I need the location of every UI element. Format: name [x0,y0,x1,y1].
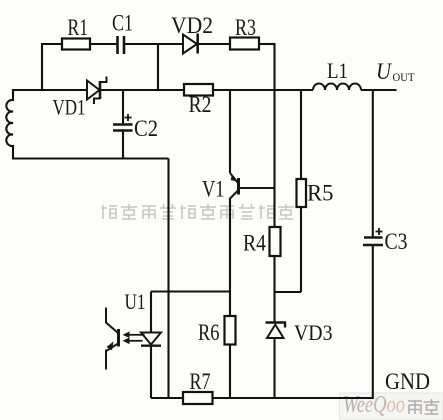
svg-text:R2: R2 [189,92,212,117]
wire R3 corner down through main rail to V1 base and R4 [273,43,275,227]
wire R1 to C1 [90,43,117,45]
schottky diode VD1 [87,77,107,105]
wire vertical common down to bottom rail [167,159,169,399]
wire VD3 anode to ground rail [273,339,275,399]
svg-text:C3: C3 [385,229,408,254]
wire R4 bottom lead down to VD3 [273,256,275,322]
wire top rail left lead [42,43,62,45]
svg-text:V1: V1 [202,177,225,202]
diode VD2 [183,34,198,54]
wire ground rail left of R7 [151,397,183,399]
optocoupler U1 phototransistor [106,308,119,370]
wire R6 bottom to ground rail [229,345,231,399]
svg-text:U1: U1 [125,289,146,314]
svg-text:R7: R7 [190,369,211,394]
wire C3 bottom lead [372,246,374,399]
resistor R1 [62,39,90,50]
svg-text:R1: R1 [68,15,89,40]
wire R3 to corner [259,43,275,45]
wire R5 bottom lead [300,207,302,292]
wire V1 collector down / R6 branch [229,198,231,316]
svg-text:C2: C2 [134,116,158,141]
svg-text:VD3: VD3 [294,320,333,345]
wire left vertical from R1 down to coil rail [41,43,43,90]
svg-text:R4: R4 [243,231,266,256]
svg-text:C1: C1 [112,11,133,36]
wire V1 emitter lead from rail [229,89,231,173]
polarized capacitor C2 [113,114,133,131]
wire U1 LED bottom lead [150,346,152,398]
watermark box (bottom right) [340,393,443,420]
resistor R2 [184,84,213,96]
wire junction vertical C1/VD2 down to main rail [157,44,159,90]
resistor R5 [297,179,307,207]
svg-text:GND: GND [385,369,430,394]
wire U1 LED anode horizontal to V1 collector line [151,290,230,292]
polarized capacitor C3 [363,228,383,245]
watermark text 维库 (mock glyphs) [408,399,440,414]
svg-text:R3: R3 [235,15,256,40]
wire R5 top lead [300,89,302,179]
wire ground rail right of R7 [213,397,374,399]
resistor R7 [183,392,213,404]
zener diode VD3 [266,323,286,339]
wire C2 top lead [122,90,124,124]
capacitor C1 [118,36,125,54]
wire main rail: VD1 to R2 [101,89,184,91]
transistor V1 (PNP) [230,173,275,199]
watermark middle: 杭州将睿科技有限公司 (mock glyphs) [101,204,294,219]
wire secondary bottom line [12,157,169,159]
wire C3 top lead [372,90,374,237]
svg-text:U: U [376,59,392,84]
wire main rail: coil to VD1 [12,89,87,91]
resistor R6 [225,316,236,345]
svg-text:VD2: VD2 [171,13,213,38]
resistor R3 [230,38,259,50]
svg-text:VD1: VD1 [53,95,86,120]
svg-text:R6: R6 [198,320,220,345]
inductor winding (left transformer coil) [6,89,13,159]
resistor R4 [270,227,281,256]
optocoupler U1 LED [141,333,161,346]
wire main rail: R2 to L1 [213,89,313,91]
optocoupler light arrows [123,332,145,345]
wire U1 LED top lead [150,292,152,333]
wire output lead after L1 [361,89,397,91]
wire VD2 to R3 [199,43,231,45]
inductor L1 [313,84,361,91]
svg-text:L1: L1 [327,58,348,83]
wire joining R4/VD3 node to R5 bottom [275,291,302,293]
wire C1 to VD2 (through node at x=158) [125,43,183,45]
svg-text:R5: R5 [307,181,334,206]
svg-text:OUT: OUT [393,72,415,84]
wire C2 bottom lead [122,131,124,160]
svg-text:WeeQoo: WeeQoo [343,392,405,418]
